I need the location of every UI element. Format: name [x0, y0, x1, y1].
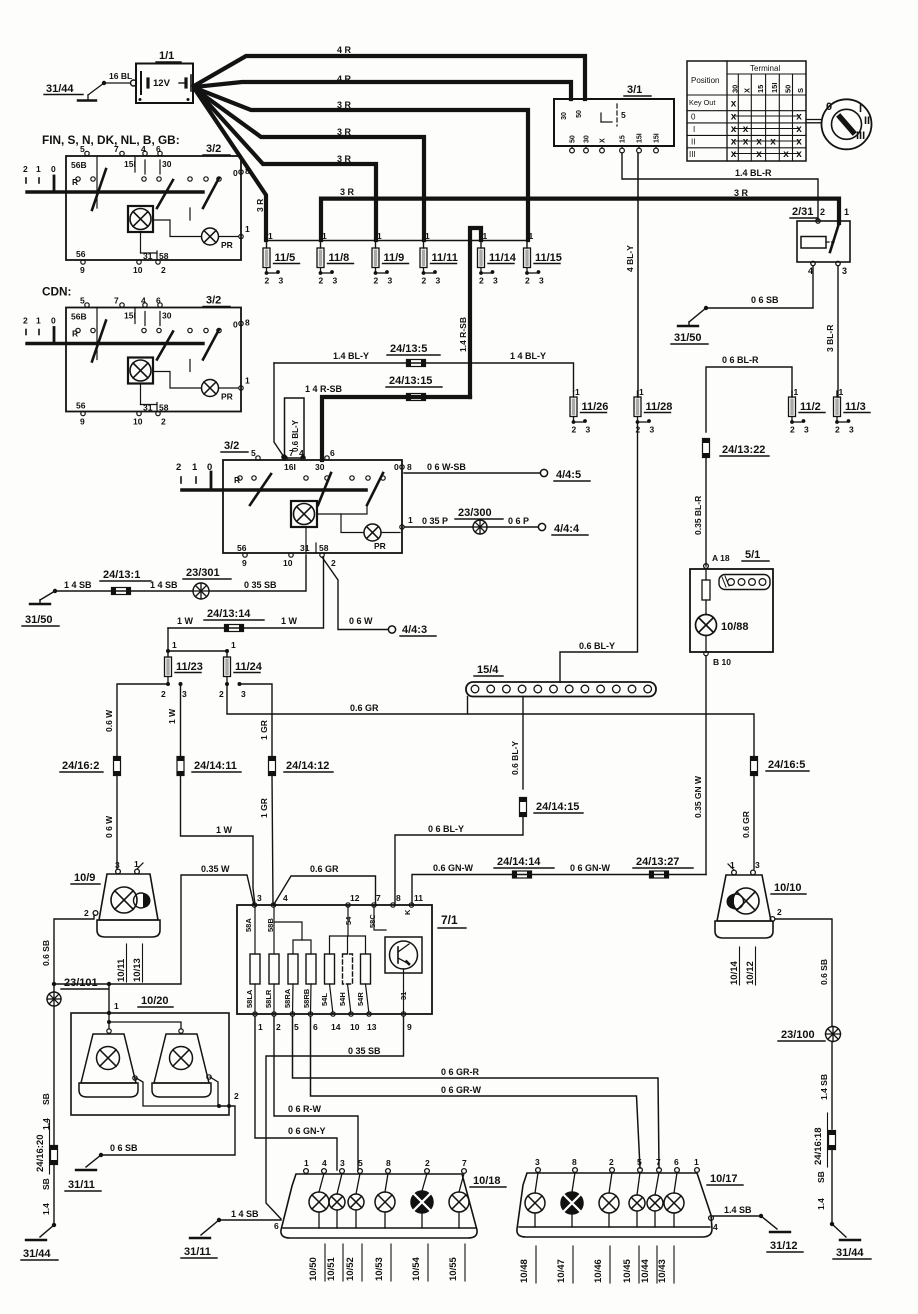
wire 3 R (fan line 3)	[195, 88, 528, 240]
housing 10/17 bulbs	[535, 1173, 538, 1194]
wire 1.4 BL-Y from switch to 11/26	[274, 363, 574, 391]
svg-text:24/13:27: 24/13:27	[636, 856, 679, 868]
switch 3/2 internal wires	[140, 232, 142, 253]
svg-text:3/1: 3/1	[627, 84, 642, 96]
svg-text:x: x	[783, 149, 789, 160]
svg-text:1: 1	[36, 316, 41, 326]
svg-text:3: 3	[650, 425, 655, 435]
svg-text:8: 8	[396, 893, 401, 903]
svg-text:10/13: 10/13	[132, 958, 143, 982]
main switch blade 2	[318, 473, 331, 505]
svg-text:Terminal: Terminal	[750, 64, 780, 73]
svg-text:1 W: 1 W	[167, 708, 177, 724]
10/20 internal feed wires	[107, 1020, 111, 1024]
svg-text:15I: 15I	[770, 83, 779, 93]
svg-text:10/17: 10/17	[710, 1173, 738, 1185]
svg-text:2: 2	[425, 1158, 430, 1168]
svg-text:2: 2	[265, 276, 270, 286]
svg-text:0 6 SB: 0 6 SB	[110, 1143, 138, 1153]
svg-text:0.6 GR: 0.6 GR	[310, 864, 339, 874]
svg-text:1 4 BL-Y: 1 4 BL-Y	[510, 351, 546, 361]
svg-text:3/2: 3/2	[206, 295, 221, 307]
switch 3/2 pilot bulb	[128, 206, 153, 232]
svg-text:31/44: 31/44	[46, 83, 74, 95]
svg-text:10/55: 10/55	[448, 1257, 459, 1281]
svg-text:3: 3	[436, 276, 441, 286]
switch 3/2 bottom pins 9 10 2	[81, 260, 85, 264]
wire 3 R (fan line 4)	[195, 89, 424, 240]
svg-text:10: 10	[350, 1022, 360, 1032]
svg-text:1: 1	[408, 515, 413, 525]
wire 1.4 SB to fuse 24/16:18	[831, 1042, 833, 1130]
svg-text:12: 12	[350, 893, 360, 903]
svg-text:1: 1	[575, 387, 580, 397]
svg-text:2: 2	[525, 276, 530, 286]
wire 3 R (fan line 5)	[196, 90, 376, 240]
svg-text:K: K	[403, 909, 412, 915]
svg-text:50: 50	[784, 85, 793, 93]
svg-text:15I: 15I	[124, 311, 136, 321]
main switch blade 3	[367, 473, 383, 505]
svg-text:5/1: 5/1	[745, 549, 760, 561]
ground 31/11 (center)	[190, 1237, 210, 1239]
svg-text:13: 13	[367, 1022, 377, 1032]
wire 1.4 SB to ground 31/44 bottom-right	[831, 1149, 833, 1225]
svg-text:11/15: 11/15	[535, 252, 562, 264]
svg-text:58A: 58A	[244, 918, 253, 932]
wire 0.6 BL-Y from 11/28 to strip 15/4	[560, 422, 638, 682]
svg-text:III: III	[856, 130, 865, 142]
wire 0.6 W from switch pin 2 to 4/4:3	[322, 557, 388, 630]
svg-text:24/14:11: 24/14:11	[194, 760, 237, 772]
svg-text:R: R	[72, 329, 78, 339]
link from table to key	[806, 119, 822, 121]
svg-text:10/44: 10/44	[640, 1259, 651, 1283]
svg-text:0 6 BL-R: 0 6 BL-R	[722, 355, 759, 365]
wire 0.35 GN-W from B10 down	[705, 656, 707, 875]
svg-text:2: 2	[374, 276, 379, 286]
7/1 top pins	[252, 903, 256, 907]
svg-text:9: 9	[80, 417, 85, 427]
wire 3 R (fan line 6)	[196, 91, 266, 240]
svg-text:16 BL: 16 BL	[109, 71, 132, 81]
svg-text:8: 8	[245, 318, 250, 328]
svg-text:2/31: 2/31	[792, 206, 813, 218]
svg-text:15I: 15I	[124, 159, 136, 169]
svg-text:2: 2	[23, 316, 28, 326]
wire 0.35 BL-R to lamp 5/1	[705, 458, 707, 567]
svg-text:15/4: 15/4	[477, 664, 499, 676]
svg-text:x: x	[743, 124, 749, 135]
svg-text:15: 15	[620, 135, 627, 143]
svg-text:1.4 SB: 1.4 SB	[819, 1074, 829, 1100]
svg-text:3 R: 3 R	[255, 199, 265, 212]
svg-text:24/16:2: 24/16:2	[62, 760, 99, 772]
switch 3/2 blade 1	[92, 169, 106, 210]
relay 2/31 bottom pins 4 and 3	[811, 261, 815, 265]
svg-text:3: 3	[535, 1157, 540, 1167]
wire 0.6 W to lamp 10/9 pin 3	[116, 775, 118, 870]
svg-text:0: 0	[691, 113, 696, 122]
svg-text:5: 5	[251, 448, 256, 458]
pins below 11/23	[167, 677, 169, 685]
svg-text:10/47: 10/47	[556, 1259, 567, 1283]
svg-text:1/1: 1/1	[159, 50, 174, 62]
wire 0.6 SB from 10/10 pin 2 to splice 23/100	[775, 919, 832, 1026]
connector 11/24	[224, 657, 231, 677]
svg-text:2: 2	[609, 1157, 614, 1167]
wire 0.6 BL-R from 11/2 to fuse 24/13:22	[706, 367, 792, 432]
svg-text:56: 56	[76, 401, 86, 411]
svg-text:15: 15	[756, 85, 765, 93]
fuse 24/16:18	[829, 1131, 836, 1150]
svg-text:23/300: 23/300	[458, 507, 492, 519]
splice 23/101	[47, 992, 61, 1006]
svg-text:0.35 GN W: 0.35 GN W	[693, 775, 703, 818]
svg-text:6: 6	[330, 448, 335, 458]
svg-text:1: 1	[245, 376, 250, 386]
svg-text:24/13:1: 24/13:1	[103, 569, 140, 581]
svg-text:1 4 SB: 1 4 SB	[64, 580, 92, 590]
svg-text:30: 30	[731, 85, 740, 93]
svg-text:II: II	[864, 115, 870, 127]
wire 3 R (main feed to relay 2/31)	[321, 199, 839, 240]
svg-text:2: 2	[161, 417, 166, 427]
svg-text:24/16:5: 24/16:5	[768, 759, 805, 771]
switch 3/2 blade 2	[157, 332, 173, 360]
svg-text:10: 10	[283, 558, 293, 568]
svg-text:X: X	[600, 138, 607, 143]
svg-text:5: 5	[80, 296, 85, 306]
svg-text:1: 1	[268, 231, 273, 241]
svg-text:PR: PR	[374, 541, 386, 551]
svg-text:x: x	[731, 112, 737, 123]
svg-text:3: 3	[388, 276, 393, 286]
terminal 4/4:4	[538, 523, 545, 530]
svg-text:2: 2	[84, 908, 89, 918]
svg-text:24/16:18: 24/16:18	[813, 1127, 824, 1165]
svg-text:1 4 R-SB: 1 4 R-SB	[305, 384, 343, 394]
fuse 24/14:14	[513, 871, 532, 878]
svg-text:11/3: 11/3	[845, 401, 866, 413]
svg-text:x: x	[796, 149, 802, 160]
switch 3/2 blade 3	[203, 330, 219, 360]
svg-text:Key Out: Key Out	[689, 98, 715, 107]
main switch blade 1	[250, 474, 271, 505]
svg-text:0.35 W: 0.35 W	[201, 864, 230, 874]
svg-text:1: 1	[258, 1022, 263, 1032]
svg-text:11/2: 11/2	[800, 401, 821, 413]
svg-text:1: 1	[114, 1001, 119, 1011]
wire 0.6 GR bus from 11/24	[227, 684, 754, 758]
svg-text:15I: 15I	[654, 133, 661, 143]
wire 0.6 SB from 10/9 pin 2 to splice 23/101	[54, 915, 94, 991]
svg-text:0: 0	[233, 320, 238, 330]
svg-text:0 6 W: 0 6 W	[349, 616, 373, 626]
ground 31/11 (left)	[76, 1169, 96, 1171]
svg-text:10/53: 10/53	[374, 1257, 385, 1281]
svg-text:6: 6	[313, 1022, 318, 1032]
wire 1.4 BL-R from 3/1 pin 15 to relay 2/31 pin 2	[622, 153, 818, 221]
svg-text:4: 4	[283, 893, 288, 903]
wire 1 W from 11/23 pin3 to fuse 24/14:11	[180, 684, 182, 758]
svg-text:24/13:5: 24/13:5	[390, 343, 427, 355]
splice 23/301	[193, 583, 209, 599]
svg-text:10/11: 10/11	[116, 958, 127, 982]
svg-text:0 6 SB: 0 6 SB	[751, 295, 779, 305]
svg-text:0 35 SB: 0 35 SB	[348, 1046, 381, 1056]
wire 1.4 R-SB from switch pin 6 through fuse 24/13:15	[322, 397, 470, 460]
svg-text:54L: 54L	[320, 993, 329, 1006]
relay coil	[801, 237, 826, 249]
svg-text:30: 30	[315, 462, 325, 472]
svg-text:6: 6	[156, 144, 161, 154]
flag label 0.6 BL-Y at switch pin 7	[285, 398, 305, 458]
svg-text:23/101: 23/101	[64, 977, 98, 989]
svg-text:24/14:15: 24/14:15	[536, 801, 579, 813]
7/1 resistor elements	[250, 954, 260, 984]
ground 31/50 (left)	[30, 603, 50, 605]
7/1 transistor	[385, 937, 422, 973]
svg-text:24/13:15: 24/13:15	[389, 375, 432, 387]
svg-text:4 R: 4 R	[337, 74, 352, 84]
svg-text:11/14: 11/14	[489, 252, 517, 264]
main switch bus wire	[182, 488, 366, 492]
svg-text:15I: 15I	[637, 133, 644, 143]
housing 10/17 pin 4 and ground 31/12	[709, 1216, 714, 1221]
svg-text:4 BL-Y: 4 BL-Y	[625, 245, 635, 272]
7/1 internal wiring	[254, 905, 256, 954]
fuse 24/16:20	[51, 1146, 58, 1165]
svg-text:3 R: 3 R	[337, 154, 352, 164]
svg-text:0.6 SB: 0.6 SB	[819, 959, 829, 985]
svg-text:x: x	[731, 137, 737, 148]
fuse 24/13:22	[703, 439, 710, 458]
svg-text:1: 1	[794, 387, 799, 397]
svg-text:5: 5	[358, 1158, 363, 1168]
svg-text:10/14: 10/14	[729, 961, 740, 985]
wire 0.6 SB from relay pin 4 to ground 31/50	[706, 266, 813, 308]
switch 3/2 internal wires	[140, 384, 142, 405]
svg-text:10/48: 10/48	[519, 1259, 530, 1283]
wire 1.4 SB through fuse 24/13:1 to ground 31/50	[55, 590, 193, 592]
switch 3/2 lamp PR	[202, 380, 219, 397]
svg-text:4 R: 4 R	[337, 45, 352, 55]
svg-text:9: 9	[80, 265, 85, 275]
wire 0.35 W from left column to 7/1 pin 3	[52, 982, 56, 986]
svg-text:58LR: 58LR	[264, 989, 273, 1008]
svg-text:3: 3	[333, 276, 338, 286]
lamp 10/9 pin 2	[93, 911, 98, 916]
ground 31/50 (right)	[678, 325, 698, 327]
wire 1 W to 7/1 via corner	[181, 775, 256, 906]
svg-text:2: 2	[479, 276, 484, 286]
svg-text:10: 10	[133, 417, 143, 427]
svg-text:1 4 SB: 1 4 SB	[231, 1209, 259, 1219]
svg-text:1.4 BL-Y: 1.4 BL-Y	[333, 351, 369, 361]
switch 3/2 bus wire	[27, 342, 203, 345]
main switch lamp PR	[364, 524, 381, 541]
switch 3/2 top pins 5 7 4 6	[85, 151, 89, 155]
svg-text:1.4: 1.4	[816, 1198, 826, 1210]
svg-text:7: 7	[462, 1158, 467, 1168]
svg-text:12V: 12V	[153, 78, 171, 89]
svg-text:3: 3	[539, 276, 544, 286]
svg-text:0 6 R-W: 0 6 R-W	[288, 1104, 322, 1114]
svg-text:4/4:3: 4/4:3	[402, 624, 427, 636]
svg-text:31/11: 31/11	[68, 1179, 95, 1191]
7/1 bottom pins	[253, 1012, 257, 1016]
svg-text:x: x	[796, 137, 802, 148]
svg-text:5: 5	[80, 144, 85, 154]
wire 0.35 SB from switch pin 31 to splice 23/301	[209, 555, 306, 591]
svg-text:4: 4	[322, 1158, 327, 1168]
svg-text:50: 50	[570, 135, 577, 143]
svg-text:1 W: 1 W	[177, 616, 194, 626]
svg-text:5: 5	[621, 110, 626, 120]
svg-text:4/4:5: 4/4:5	[556, 469, 581, 481]
svg-text:0 6 P: 0 6 P	[508, 516, 529, 526]
svg-text:5: 5	[294, 1022, 299, 1032]
svg-text:SB: SB	[816, 1171, 826, 1183]
svg-text:2: 2	[790, 425, 795, 435]
svg-text:1.4: 1.4	[41, 1203, 51, 1215]
svg-text:1: 1	[694, 1157, 699, 1167]
svg-text:9: 9	[242, 558, 247, 568]
wire 1 W from switch pin 58 to 11/23 11/24	[168, 557, 324, 628]
svg-text:2: 2	[572, 425, 577, 435]
svg-text:0 6 W: 0 6 W	[104, 815, 114, 838]
svg-text:23/100: 23/100	[781, 1029, 815, 1041]
wire 0.6 W from 11/23 pin2 to fuse 24/16:2	[117, 684, 168, 758]
svg-text:B 10: B 10	[713, 657, 731, 667]
svg-text:1.4 SB: 1.4 SB	[724, 1205, 752, 1215]
svg-text:58: 58	[159, 251, 169, 261]
fuse 24/13:1	[112, 588, 131, 595]
svg-text:4: 4	[141, 144, 146, 154]
svg-text:1: 1	[377, 231, 382, 241]
wire 1 GR to 7/1 pin 4	[272, 775, 273, 906]
fuse 24/13:5	[407, 360, 426, 367]
svg-text:10/51: 10/51	[326, 1257, 337, 1281]
housing 10/18 top pins	[304, 1169, 309, 1174]
svg-text:11/26: 11/26	[582, 401, 609, 413]
wire 1.4 SB to ground 31/44 bottom-left	[53, 1164, 55, 1226]
strip left stub to 0.6 GR bus	[467, 697, 469, 715]
wire 0.6 GR-W from 7/1 pin 6 to housing 10/17 pin 5	[311, 1016, 641, 1168]
svg-text:I: I	[859, 103, 862, 115]
svg-text:7: 7	[114, 144, 119, 154]
svg-text:7: 7	[114, 296, 119, 306]
svg-text:11/24: 11/24	[235, 661, 263, 673]
bulb in 10/9 dual filament	[111, 887, 137, 913]
svg-text:2: 2	[176, 462, 181, 473]
svg-text:1: 1	[245, 224, 250, 234]
svg-text:10/18: 10/18	[473, 1175, 501, 1187]
svg-text:31/50: 31/50	[674, 332, 702, 344]
svg-text:Position: Position	[691, 76, 719, 85]
3/1 bottom pins 50 30 X 15 15I 15I	[571, 146, 573, 148]
left fog lamp	[81, 1034, 136, 1083]
svg-text:10/9: 10/9	[74, 872, 95, 884]
switch 3/2 bottom pins 9 10 2	[81, 411, 85, 415]
switch 3/2 blade 1	[92, 321, 106, 362]
main switch top pins 5 7 4 6	[256, 456, 260, 460]
fuse 24/14:12	[269, 757, 276, 776]
svg-text:8: 8	[572, 1157, 577, 1167]
svg-text:16I: 16I	[284, 462, 296, 472]
wire 0.6 W-SB to 4/4:5	[404, 472, 540, 474]
svg-text:58: 58	[319, 543, 329, 553]
svg-text:0.6 BL-Y: 0.6 BL-Y	[510, 741, 520, 775]
svg-text:0 6 GR-R: 0 6 GR-R	[441, 1067, 480, 1077]
svg-text:10/10: 10/10	[774, 882, 802, 894]
wire 0.6 BL-Y strip to fuse 24/14:15 and 7/1 pin 8	[522, 697, 524, 790]
svg-text:11/5: 11/5	[275, 252, 296, 264]
svg-text:14: 14	[331, 1022, 341, 1032]
5/1 internal fuse	[705, 569, 707, 580]
svg-text:8: 8	[386, 1158, 391, 1168]
right fog lamp	[154, 1034, 209, 1083]
svg-text:31/44: 31/44	[23, 1248, 51, 1260]
fuse 24/13:14	[225, 625, 244, 632]
svg-text:2: 2	[319, 276, 324, 286]
svg-text:0.6 SB: 0.6 SB	[41, 940, 51, 966]
svg-text:30: 30	[162, 159, 172, 169]
svg-text:0 6 GR-W: 0 6 GR-W	[441, 1085, 482, 1095]
main switch contact circles	[238, 476, 242, 480]
svg-text:24/14:12: 24/14:12	[286, 760, 329, 772]
svg-text:1 W: 1 W	[216, 825, 233, 835]
svg-text:II: II	[691, 138, 695, 147]
5/1 B10 pin	[705, 636, 707, 653]
wire 0.35 SB from 7/1 pin 9 to housing 10/18 pin 6	[266, 1016, 404, 1219]
svg-text:10/54: 10/54	[411, 1257, 422, 1281]
svg-text:x: x	[743, 137, 749, 148]
svg-text:3: 3	[804, 425, 809, 435]
wire 16 BL	[102, 81, 106, 85]
terminal 4/4:5	[540, 469, 547, 476]
svg-text:2: 2	[422, 276, 427, 286]
svg-text:1 W: 1 W	[281, 616, 298, 626]
fuse 24/14:11	[177, 757, 184, 776]
svg-text:30: 30	[584, 135, 591, 143]
svg-text:58C: 58C	[368, 914, 377, 928]
lamp 10/10 pin 2	[770, 917, 775, 922]
ground 31/12	[770, 1231, 790, 1233]
svg-text:0.6 GN-W: 0.6 GN-W	[433, 863, 474, 873]
fuse 24/16:2	[114, 757, 121, 776]
svg-text:6: 6	[156, 296, 161, 306]
svg-text:56B: 56B	[71, 160, 87, 170]
svg-text:0: 0	[826, 101, 832, 113]
svg-text:56: 56	[76, 249, 86, 259]
svg-text:54R: 54R	[356, 992, 365, 1006]
svg-text:31/11: 31/11	[184, 1246, 211, 1258]
svg-text:11/23: 11/23	[176, 661, 203, 673]
ignition key symbol	[822, 99, 872, 149]
svg-text:9: 9	[407, 1022, 412, 1032]
svg-text:30: 30	[561, 112, 568, 120]
svg-text:3/2: 3/2	[224, 440, 239, 452]
svg-text:CDN:: CDN:	[42, 285, 72, 299]
svg-text:24/16:20: 24/16:20	[35, 1134, 46, 1172]
svg-text:31: 31	[300, 543, 310, 553]
wire 0.6 GN-W from 7/1 pin 11	[412, 875, 706, 906]
svg-text:3 BL-R: 3 BL-R	[825, 325, 835, 352]
svg-text:3: 3	[115, 860, 120, 870]
svg-text:3: 3	[182, 689, 187, 699]
